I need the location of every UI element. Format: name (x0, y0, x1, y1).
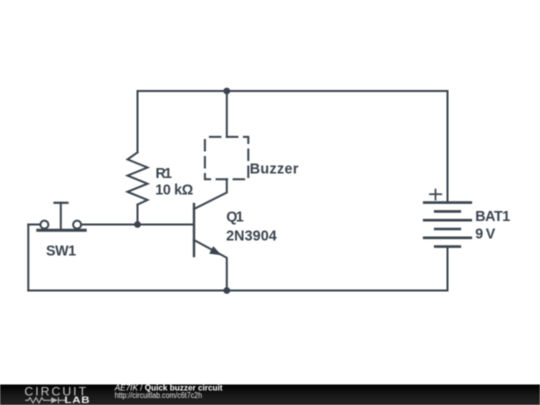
svg-text:http://circuitlab.com/c6t7c2h: http://circuitlab.com/c6t7c2h (115, 391, 202, 400)
buzzer dashed body (205, 137, 248, 179)
svg-text:BAT1: BAT1 (475, 209, 510, 225)
svg-text:SW1: SW1 (46, 243, 76, 259)
wire left riser (27, 225, 29, 291)
CircuitLab logo (24, 385, 90, 405)
svg-text:10 kΩ: 10 kΩ (155, 183, 193, 199)
svg-text:LAB: LAB (64, 395, 90, 405)
svg-text:9 V: 9 V (475, 227, 496, 243)
svg-text:Buzzer: Buzzer (250, 161, 299, 177)
svg-text:R1: R1 (156, 166, 173, 182)
transistor Q1 (194, 179, 227, 290)
node junction buzzer/top rail (223, 88, 230, 95)
node junction resistor/base wire (134, 221, 141, 228)
node junction emitter/bottom rail (223, 287, 230, 294)
wire battery bottom lead (447, 247, 449, 291)
wire top rail (138, 91, 448, 203)
wire resistor bottom lead (137, 205, 139, 225)
resistor R1 (128, 152, 148, 204)
battery BAT1 (424, 190, 471, 247)
svg-text:2N3904: 2N3904 (226, 228, 277, 244)
switch SW1 (28, 203, 85, 230)
footer bar (0, 385, 540, 405)
wire base (81, 224, 194, 226)
wire bottom rail (28, 290, 447, 292)
wire buzzer top lead (226, 91, 228, 137)
svg-text:Q1: Q1 (226, 209, 243, 225)
